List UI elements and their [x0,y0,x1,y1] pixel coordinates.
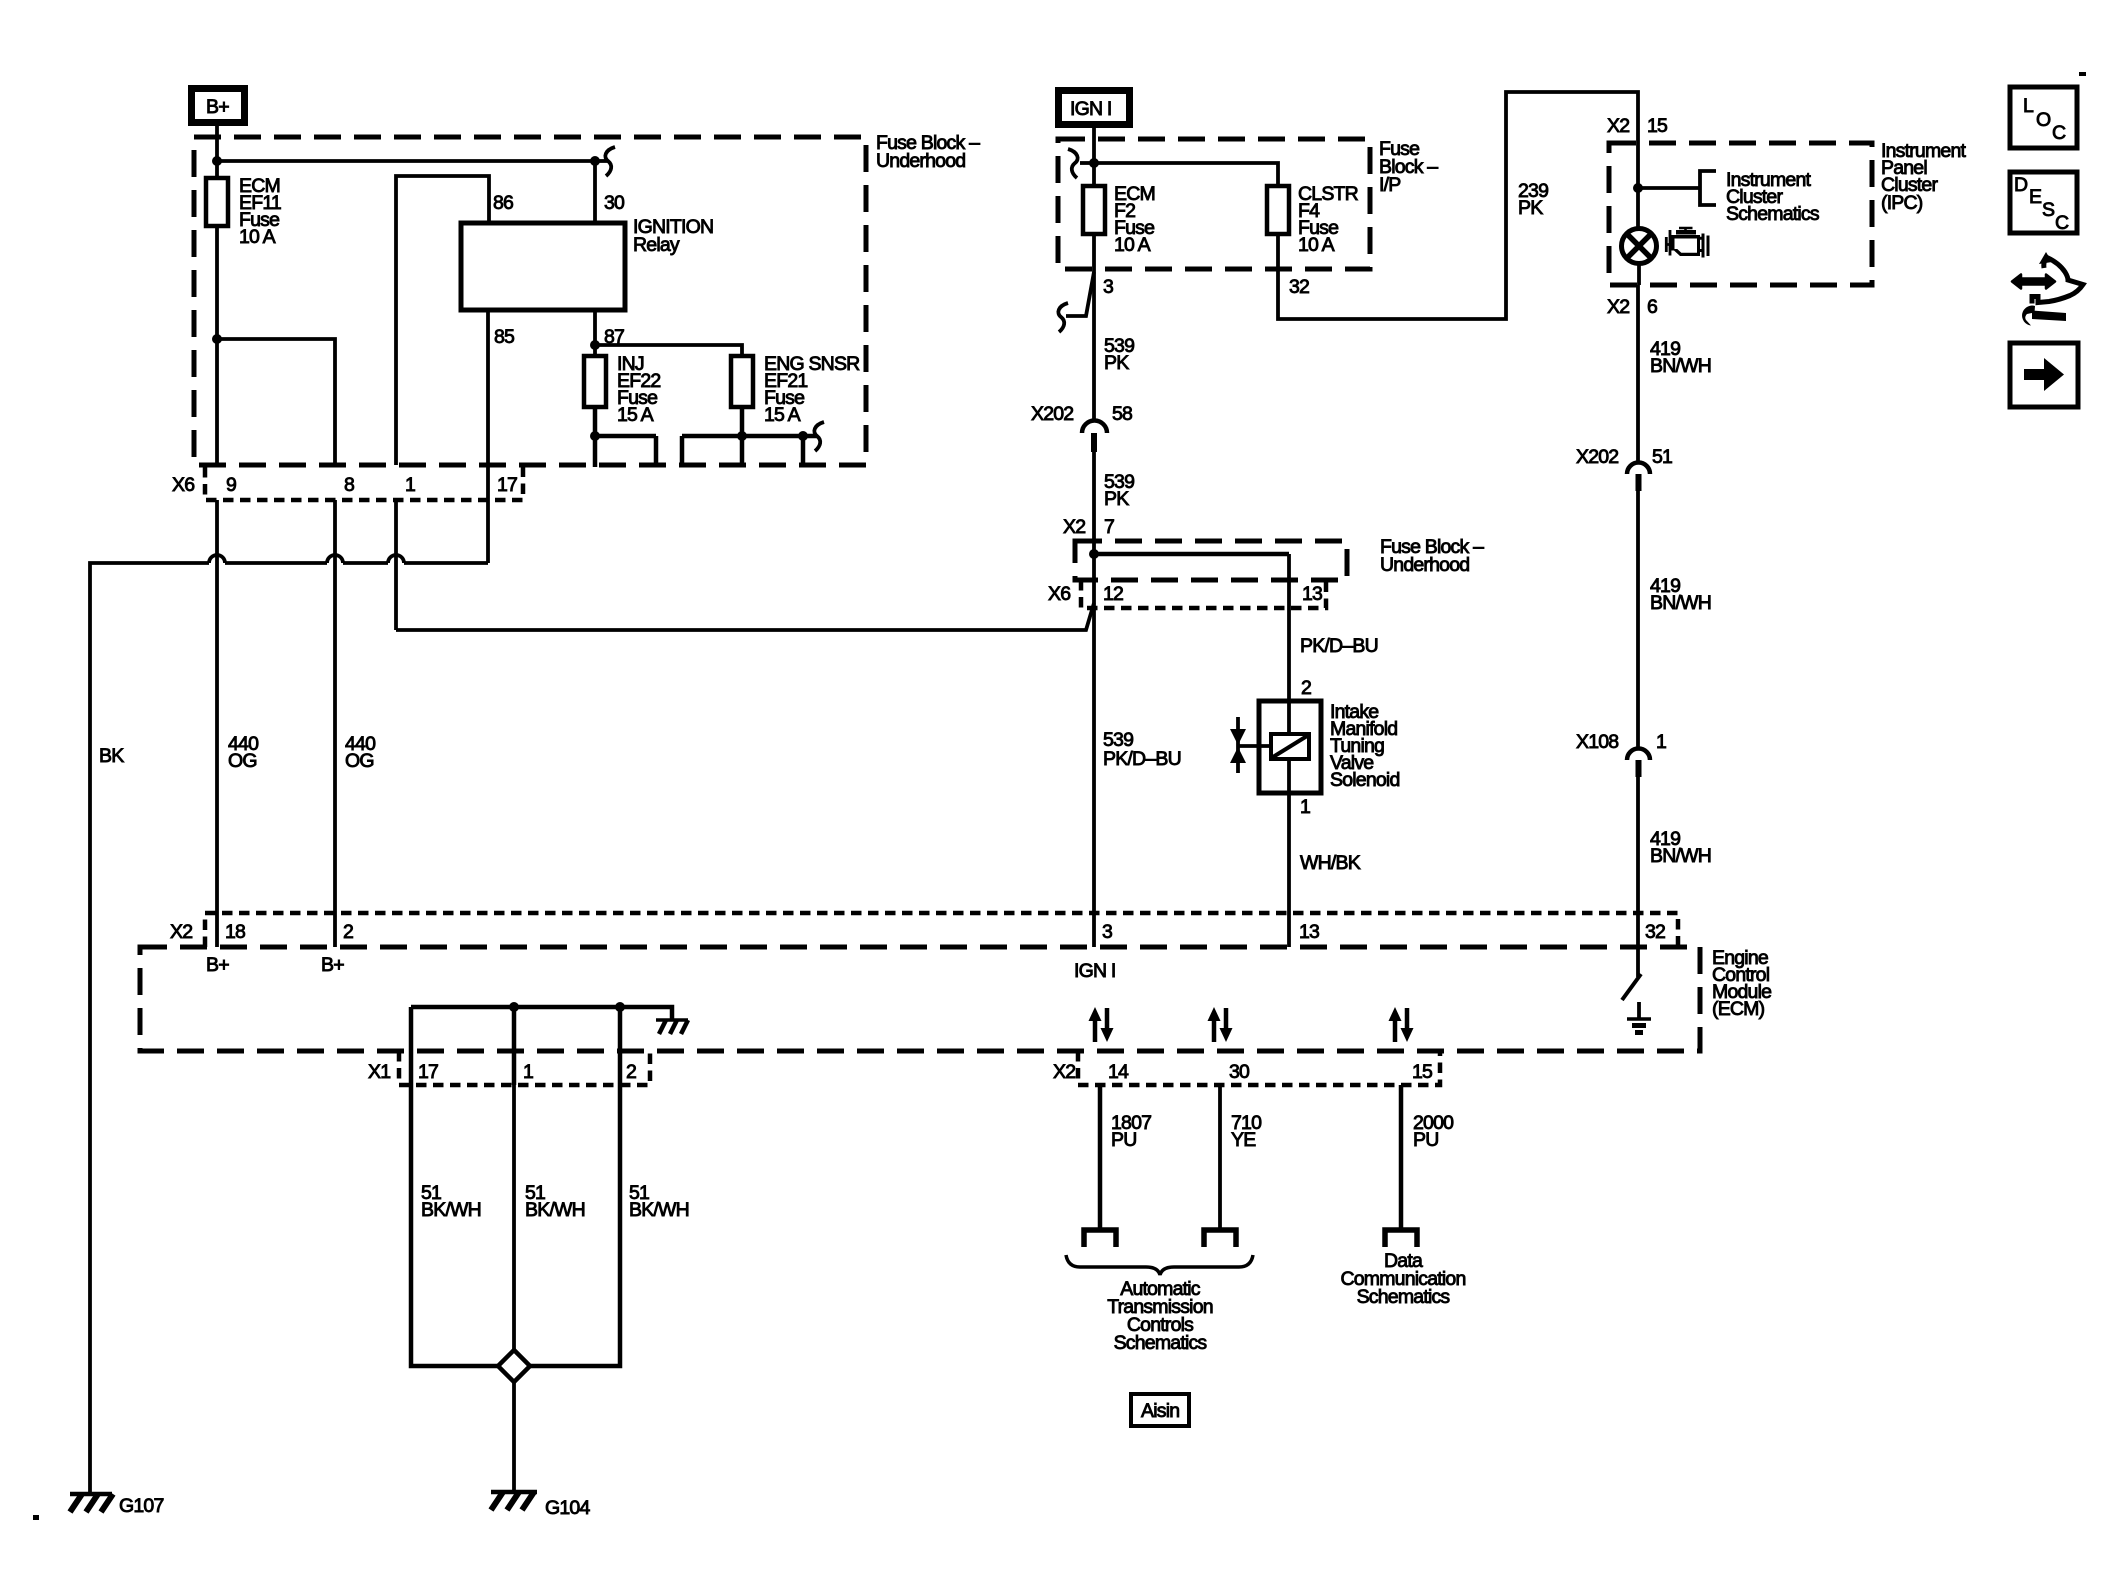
bidirectional arrows pin 30 [1208,1007,1233,1042]
wire to X108 419 BN/WH [1636,491,1640,747]
svg-text:X202: X202 [1576,446,1618,468]
wire X6-17 to ground bus [486,500,490,563]
svg-text:13: 13 [1299,921,1319,943]
wire branch curl IGN I [1080,161,1094,165]
wire lamp to X2-6 [1637,264,1641,285]
node EF11 output junction [212,334,222,344]
svg-text:PK: PK [1518,197,1543,219]
svg-text:X202: X202 [1031,403,1073,425]
svg-text:OG: OG [345,750,374,772]
svg-text:IGN I: IGN I [1070,98,1112,120]
svg-text:Underhood: Underhood [1380,554,1469,576]
connector X6 row middle [1081,580,1326,608]
svg-text:1: 1 [405,474,415,496]
node IGN I junction [1089,158,1099,168]
wire ECM pin 15 2000 PU [1399,1085,1404,1228]
svg-text:15: 15 [1412,1061,1433,1083]
connector X6 row left [205,467,523,500]
wire X2-6 down 419 BN/WH [1636,285,1640,461]
svg-text:X2: X2 [1063,516,1085,538]
ground bus inside ECM [411,1007,672,1019]
fuse ENG SNSR EF21 15A [731,356,753,407]
battery feed B+ [192,89,245,123]
svg-text:X2: X2 [1607,115,1629,137]
fuse CLSTR F4 10A [1267,186,1289,234]
solenoid intake manifold tuning valve [1238,701,1321,793]
fuse ECM EF11 10A [206,178,228,226]
svg-text:PU: PU [1111,1129,1137,1151]
svg-text:14: 14 [1108,1061,1129,1083]
svg-text:32: 32 [1645,921,1665,943]
connector X2 top row ECM [205,913,1678,947]
svg-text:17: 17 [418,1061,438,1083]
svg-text:IGN I: IGN I [1074,960,1116,982]
svg-text:10 A: 10 A [1114,234,1151,256]
wire 539 through X6-12 down to ECM pin 3 [1092,603,1096,947]
hop over X6-1 wire [388,555,404,563]
node bus junction in fuse block [1089,549,1099,559]
ground G107 [70,1494,164,1517]
wire curl ENG SNSR branch [814,422,824,451]
valve symbol [1230,717,1246,773]
svg-text:2: 2 [626,1061,636,1083]
svg-text:85: 85 [494,326,515,348]
wire solenoid to ECM pin 13 (WH/BK) [1287,793,1291,947]
fuse block underhood box [194,137,866,465]
svg-text:OG: OG [228,750,257,772]
indicator lamp MIL [1622,229,1657,264]
hop over 440 OG wire [209,555,225,563]
wire CLSTR F4 pin 32 to IPC (239 PK) [1278,92,1638,319]
connector X2 bottom row [1078,1051,1440,1085]
stray dot bottom left [33,1515,39,1520]
svg-text:X6: X6 [172,474,194,496]
svg-text:D: D [2014,174,2028,196]
wire X6-1 down [394,500,398,630]
ground G104 [491,1492,590,1519]
stray dot top right [2079,72,2086,76]
splice diamond [498,1350,530,1382]
wire pin 87 to ENG SNSR fuse [595,345,742,356]
connector X1 row [399,1051,650,1085]
svg-text:6: 6 [1647,296,1657,318]
Aisin label box [1131,1394,1189,1426]
wire ENG SNSR fuse output bus [682,407,817,467]
svg-text:E: E [2029,186,2042,208]
svg-text:PK: PK [1104,352,1129,374]
svg-text:BN/WH: BN/WH [1650,592,1711,614]
svg-text:15 A: 15 A [617,404,654,426]
svg-text:1: 1 [1300,796,1310,818]
wire ECM pin 14 1807 PU [1098,1085,1103,1228]
svg-text:X1: X1 [368,1061,390,1083]
engine icon [1666,228,1708,258]
svg-text:58: 58 [1112,403,1132,425]
wire branch to X6 pin 8 [217,339,335,465]
wire X1-2 ground 51 BK/WH [530,1085,620,1366]
svg-text:Underhood: Underhood [876,150,965,172]
fuse block I/P box [1058,139,1370,269]
fuse ECM F2 10A [1083,186,1105,234]
wire IGN I to CLSTR fuse [1094,163,1278,186]
wire X6-9 to ECM B+ (440 OG) [215,500,219,947]
hop over 440 OG wire [327,555,343,563]
wire INJ fuse output staple [595,407,656,467]
svg-text:BK/WH: BK/WH [525,1199,585,1221]
svg-text:30: 30 [604,192,625,214]
svg-text:X2: X2 [170,921,192,943]
svg-text:13: 13 [1302,583,1322,605]
svg-text:I/P: I/P [1379,174,1400,196]
svg-text:3: 3 [1102,921,1112,943]
svg-text:9: 9 [226,474,236,496]
connector X202-58 inline [1031,403,1132,452]
icon LOC button [2010,87,2077,148]
svg-text:PK/D–BU: PK/D–BU [1300,635,1378,657]
wire branch diagonal to curl [1066,272,1094,316]
svg-text:PK: PK [1104,488,1129,510]
wire EF11 to X6 pin 9 [215,339,219,465]
svg-text:B+: B+ [206,96,229,118]
svg-text:7: 7 [1104,516,1114,538]
svg-text:B+: B+ [206,954,229,976]
ground internal ECM [1627,1002,1651,1033]
icon wrench arrows [2012,252,2083,326]
svg-text:2: 2 [343,921,353,943]
wire F2 output 539 PK [1092,234,1096,420]
svg-text:X2: X2 [1607,296,1629,318]
svg-text:WH/BK: WH/BK [1300,852,1361,874]
wire into IPC to lamp [1636,143,1640,228]
connector X108-1 inline [1576,731,1666,777]
svg-text:Aisin: Aisin [1141,1400,1179,1422]
wire X1-17 [409,1007,414,1085]
wire branch curl to other circuits [605,147,615,176]
bidirectional arrows pin 15 [1389,1007,1414,1042]
wire X1-1 [512,1007,517,1085]
svg-text:X6: X6 [1048,583,1070,605]
wire bus to X6-13 [1094,552,1289,557]
relay ignition [461,223,625,310]
wire IGN I down [1092,128,1096,186]
svg-text:PK/D–BU: PK/D–BU [1103,748,1181,770]
wire X1-1 ground 51 BK/WH [512,1085,516,1350]
terminal connector 1807 [1084,1230,1116,1247]
icon DESC button [2010,172,2077,234]
wire B+ down to bus [215,126,219,161]
wire to relay pin 30 [593,161,597,223]
svg-text:Schematics: Schematics [1726,203,1820,225]
svg-text:PU: PU [1413,1129,1439,1151]
svg-text:BK: BK [99,745,124,767]
wire 539 PK to X2-7 [1092,452,1096,603]
svg-text:BK/WH: BK/WH [629,1199,689,1221]
svg-text:X108: X108 [1576,731,1618,753]
wire X6-1 to middle fuse block X6-12 [396,603,1094,630]
svg-text:Schematics: Schematics [1114,1332,1208,1354]
wire to ECM pin 32 419 BN/WH [1636,777,1640,947]
wire relay pin 86 feed [396,176,489,465]
svg-text:Solenoid: Solenoid [1330,769,1400,791]
chassis ground ECM [656,1020,688,1034]
svg-text:32: 32 [1289,276,1309,298]
svg-text:(ECM): (ECM) [1712,998,1765,1020]
wire B+ bus to relay pin 30 [217,159,595,163]
wire relay pin 85 to X6 pin 17 [486,310,490,500]
svg-text:X2: X2 [1053,1061,1075,1083]
svg-text:G104: G104 [545,1497,590,1519]
svg-text:3: 3 [1103,276,1113,298]
svg-text:BN/WH: BN/WH [1650,845,1711,867]
wire splice to G104 [512,1382,516,1492]
svg-text:L: L [2023,95,2034,117]
svg-text:1: 1 [1656,731,1666,753]
engine control module box [140,947,1700,1051]
svg-text:15: 15 [1647,115,1668,137]
wire X6-8 to ECM B+ (440 OG) [333,500,337,947]
wire curl pin3 branch [1058,303,1068,332]
wire ECM pin 30 710 YE [1218,1085,1222,1228]
terminal connector 710 [1204,1230,1236,1247]
node IPC junction [1633,183,1643,193]
svg-text:BN/WH: BN/WH [1650,355,1711,377]
svg-text:86: 86 [493,192,513,214]
icon arrow button [2010,343,2078,407]
bidirectional arrows pin 14 [1089,1007,1114,1042]
svg-text:Schematics: Schematics [1357,1286,1451,1308]
svg-text:O: O [2036,109,2051,131]
terminal connector 2000 [1385,1230,1417,1247]
wire ground bus to BK [90,563,488,1494]
svg-text:BK/WH: BK/WH [421,1199,481,1221]
fuse INJ EF22 15A [584,356,606,407]
svg-text:S: S [2042,199,2055,221]
instrument panel cluster box [1609,143,1872,285]
svg-text:C: C [2055,212,2069,234]
wire relay pin 87 down [593,310,597,356]
svg-text:C: C [2052,122,2066,144]
svg-text:8: 8 [344,474,354,496]
svg-text:17: 17 [497,474,517,496]
fuse block underhood middle box [1075,541,1347,580]
svg-text:2: 2 [1301,677,1311,699]
svg-text:Relay: Relay [633,234,680,256]
fuse EF11 wire [215,161,219,339]
svg-text:30: 30 [1229,1061,1250,1083]
power symbol IGN I [1059,91,1130,125]
svg-text:15 A: 15 A [764,404,801,426]
bracket other schematics [1700,171,1716,205]
svg-text:(IPC): (IPC) [1881,192,1923,214]
node bus junction [212,156,222,166]
wire X6-13 down (PK/D-BU) [1287,554,1291,701]
wire to instrument cluster schematics bracket [1638,186,1700,190]
brace automatic transmission [1066,1255,1253,1275]
wire X1-17 ground 51 BK/WH [411,1085,498,1366]
svg-text:1: 1 [523,1061,533,1083]
svg-text:10 A: 10 A [239,226,276,248]
svg-text:51: 51 [1652,446,1672,468]
svg-text:G107: G107 [119,1495,164,1517]
wire X1-2 [618,1007,623,1085]
svg-text:18: 18 [225,921,245,943]
svg-text:12: 12 [1103,583,1123,605]
svg-text:B+: B+ [321,954,344,976]
connector X202-51 inline [1576,446,1672,491]
svg-text:YE: YE [1231,1129,1256,1151]
switch to ground inside ECM [1636,947,1640,977]
svg-text:10 A: 10 A [1298,234,1335,256]
